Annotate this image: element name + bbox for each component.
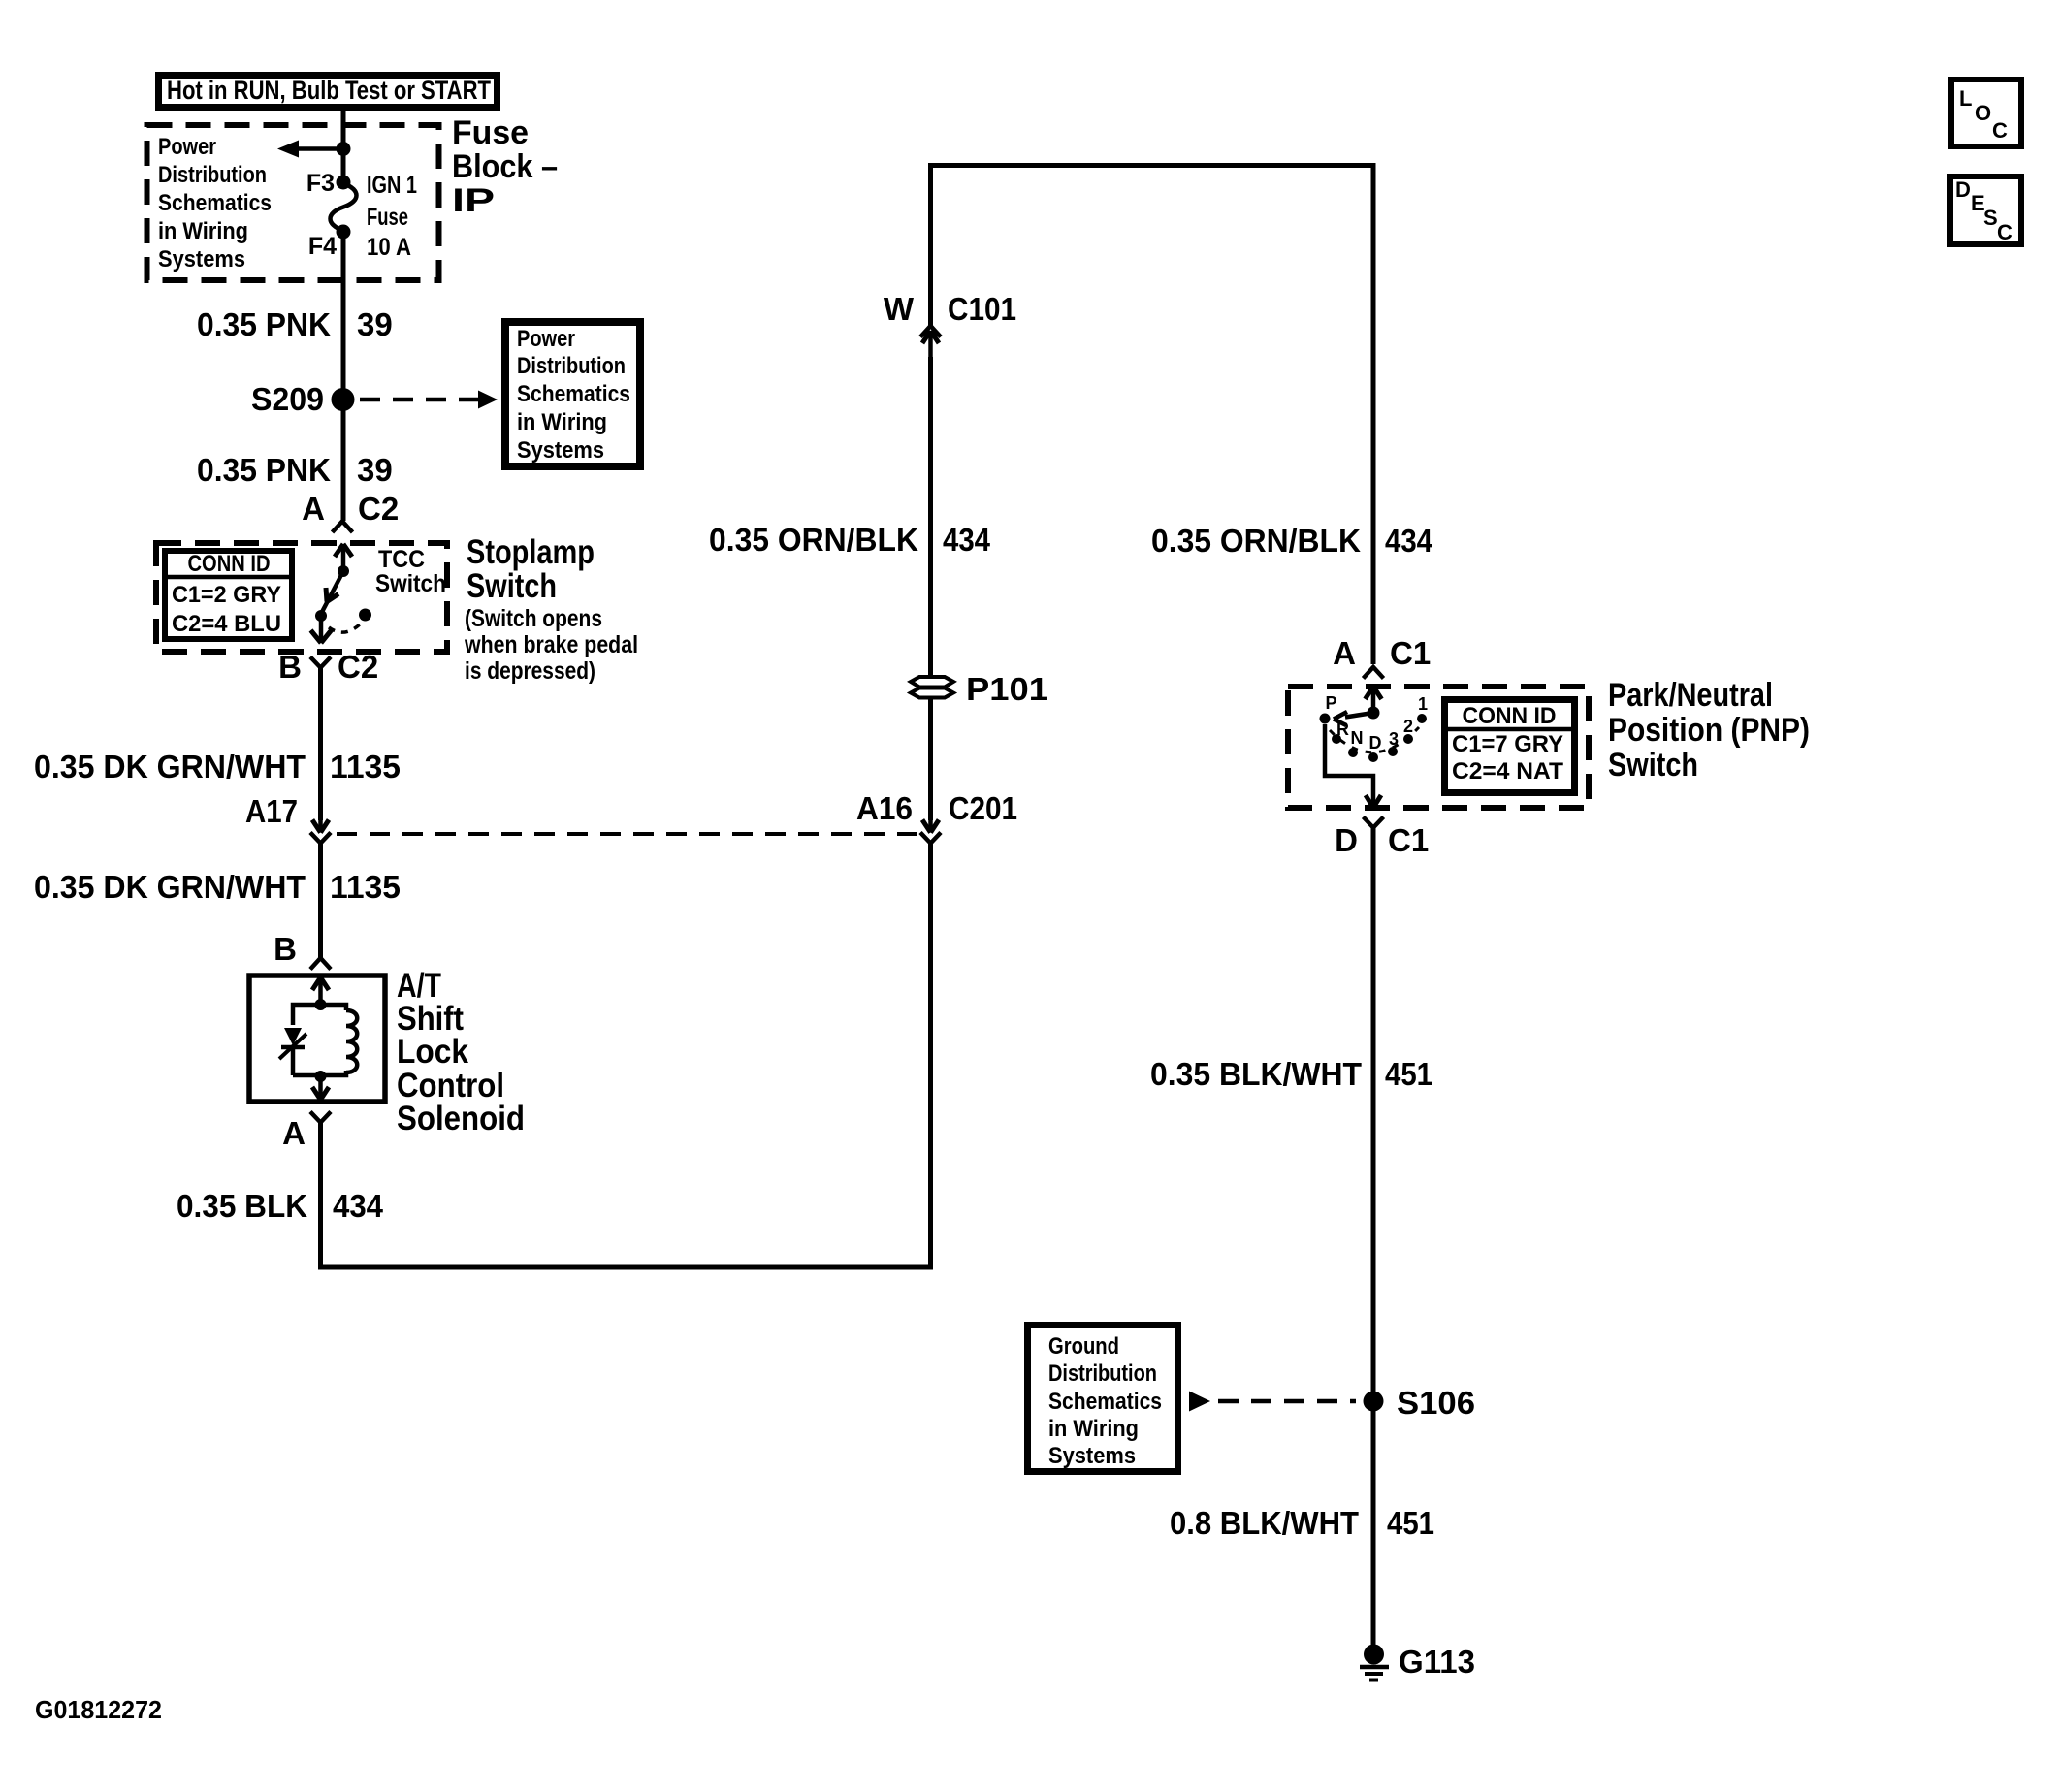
PNP contact dot N xyxy=(1348,748,1358,757)
svg-text:0.35 PNK: 0.35 PNK xyxy=(197,306,331,342)
CONN ID table (stoplamp switch) xyxy=(165,551,292,639)
CONN ID table (PNP switch) xyxy=(1444,700,1575,793)
svg-text:C2=4 NAT: C2=4 NAT xyxy=(1452,758,1563,784)
svg-text:O: O xyxy=(1975,101,1991,125)
component label: Park/Neutral Position (PNP) Switch xyxy=(1608,677,1810,784)
wire: solenoid A down, right along bottom, and up the middle column xyxy=(321,842,931,1267)
PNP switch wiper arm with arrowhead xyxy=(1334,712,1373,725)
solenoid coil winding xyxy=(346,1010,357,1072)
wire from hot box into fuse block xyxy=(341,108,346,184)
svg-text:D: D xyxy=(1955,177,1971,202)
wire label 0.35 PNK / circuit 39 (upper) xyxy=(197,306,393,342)
svg-text:Distribution: Distribution xyxy=(1048,1360,1157,1387)
wire label 0.35 ORN/BLK / 434 (middle) xyxy=(709,522,991,558)
connector C201 male arrow (middle) xyxy=(922,820,939,833)
svg-text:D: D xyxy=(1335,822,1358,858)
svg-text:Power: Power xyxy=(517,326,575,352)
connector C201 female fork (left) xyxy=(310,833,331,844)
svg-text:N: N xyxy=(1351,728,1364,748)
note text: Power Distribution Schematics in Wiring Systems (fuse block) xyxy=(158,134,272,272)
svg-text:Systems: Systems xyxy=(1048,1443,1136,1469)
PNP switch: male arrow at top xyxy=(1366,687,1382,713)
PNP switch pivot dot xyxy=(1368,707,1380,720)
splice node S106 xyxy=(1364,1392,1384,1412)
svg-text:C1: C1 xyxy=(1390,635,1431,671)
PNP contact dot 2 xyxy=(1403,734,1413,744)
svg-text:Lock: Lock xyxy=(397,1033,468,1071)
wire: P101 down to C201 xyxy=(928,698,933,820)
svg-text:S: S xyxy=(1983,206,1998,230)
svg-text:Systems: Systems xyxy=(158,246,245,272)
svg-text:P: P xyxy=(1325,693,1336,713)
label TCC Switch xyxy=(375,546,446,597)
svg-text:C101: C101 xyxy=(948,291,1016,327)
component label: Stoplamp Switch xyxy=(464,533,638,685)
PNP contact dot D xyxy=(1368,752,1378,762)
svg-text:IGN 1: IGN 1 xyxy=(367,172,417,199)
svg-text:434: 434 xyxy=(943,522,991,558)
connector female fork at solenoid B pin xyxy=(310,958,331,970)
svg-text:1135: 1135 xyxy=(330,749,401,784)
ground G113 symbol xyxy=(1360,1645,1389,1680)
svg-text:Switch: Switch xyxy=(375,570,446,597)
reference box: Ground Distribution Schematics in Wiring Systems xyxy=(1028,1326,1178,1472)
dashed reference arrow from S209 to power distribution box xyxy=(360,391,498,409)
svg-text:G01812272: G01812272 xyxy=(35,1695,162,1724)
svg-text:B: B xyxy=(274,931,297,967)
svg-text:R: R xyxy=(1336,720,1349,739)
svg-text:Ground: Ground xyxy=(1048,1333,1119,1360)
connector C101 female fork xyxy=(920,326,941,337)
svg-text:in Wiring: in Wiring xyxy=(158,218,248,244)
splice node S209 xyxy=(332,388,355,411)
svg-text:10 A: 10 A xyxy=(367,234,411,261)
svg-text:in Wiring: in Wiring xyxy=(517,409,607,435)
PNP position labels P R N D 3 2 1 xyxy=(1325,693,1428,752)
svg-text:451: 451 xyxy=(1387,1505,1434,1541)
solenoid bottom junction dot xyxy=(315,1071,327,1082)
svg-text:Hot in RUN, Bulb Test or START: Hot in RUN, Bulb Test or START xyxy=(167,76,491,105)
svg-text:39: 39 xyxy=(357,452,393,488)
connector female fork B/C2 xyxy=(310,657,331,668)
connector C201 male arrow (left) xyxy=(312,820,329,833)
svg-text:F4: F4 xyxy=(308,233,337,260)
svg-text:Switch: Switch xyxy=(467,567,557,605)
wire label 0.35 DK GRN/WHT / 1135 (upper) xyxy=(34,749,401,784)
connector female fork A/C1 xyxy=(1364,667,1384,679)
svg-text:Fuse: Fuse xyxy=(367,204,408,231)
svg-text:434: 434 xyxy=(333,1188,384,1224)
svg-text:S106: S106 xyxy=(1397,1385,1475,1421)
pin label A16 / connector C201 xyxy=(856,790,1017,826)
svg-text:C2: C2 xyxy=(358,491,399,527)
svg-text:2: 2 xyxy=(1403,717,1413,736)
wire: C101 down to P101 xyxy=(928,357,933,677)
fuse F4 terminal dot xyxy=(337,225,351,240)
PNP contact dot 1 xyxy=(1417,714,1427,723)
reference box: Power Distribution Schematics in Wiring Systems xyxy=(505,322,640,466)
wire label 0.35 BLK/WHT / 451 xyxy=(1150,1056,1432,1092)
svg-text:IP: IP xyxy=(452,182,495,219)
svg-text:0.35 DK GRN/WHT: 0.35 DK GRN/WHT xyxy=(34,749,306,784)
fuse F3 terminal dot xyxy=(337,176,351,190)
svg-text:Distribution: Distribution xyxy=(158,162,267,188)
top tie wire between middle and right columns xyxy=(931,166,1374,665)
svg-text:Stoplamp: Stoplamp xyxy=(467,533,595,571)
svg-text:Schematics: Schematics xyxy=(158,190,272,216)
svg-text:3: 3 xyxy=(1389,729,1399,749)
svg-text:C1: C1 xyxy=(1388,822,1429,858)
wire: fuse output down to stoplamp switch connector xyxy=(341,230,346,521)
svg-text:0.35 PNK: 0.35 PNK xyxy=(197,452,331,488)
solenoid internal wiring bottom xyxy=(293,1071,346,1075)
TCC switch: male arrow at bottom xyxy=(311,616,332,643)
svg-text:C: C xyxy=(1992,118,2008,143)
connector female fork A/C2 xyxy=(333,522,353,533)
svg-text:C2: C2 xyxy=(338,649,378,685)
stoplamp switch dashed box xyxy=(156,543,447,652)
svg-text:CONN ID: CONN ID xyxy=(1463,703,1557,729)
svg-text:1135: 1135 xyxy=(330,869,401,905)
svg-text:451: 451 xyxy=(1385,1056,1432,1092)
TCC switch pivot dot xyxy=(338,565,349,577)
svg-text:0.35 BLK/WHT: 0.35 BLK/WHT xyxy=(1150,1056,1362,1092)
svg-text:Switch: Switch xyxy=(1608,747,1698,784)
fuse IGN 1 10 A element (S-curve) xyxy=(331,183,357,231)
svg-text:is depressed): is depressed) xyxy=(465,657,595,685)
TCC switch: male arrow at top xyxy=(335,544,352,569)
svg-text:434: 434 xyxy=(1385,523,1433,559)
svg-text:Distribution: Distribution xyxy=(517,353,626,379)
svg-text:F3: F3 xyxy=(306,170,335,197)
svg-text:S209: S209 xyxy=(251,381,324,417)
PNP park contact output wiring xyxy=(1325,724,1373,806)
svg-text:P101: P101 xyxy=(966,671,1048,707)
wire label 0.35 BLK / 434 xyxy=(177,1188,384,1224)
TCC switch swing arm with arrowhead xyxy=(321,571,343,614)
component label: A/T Shift Lock Control Solenoid xyxy=(397,967,525,1137)
wire label 0.35 ORN/BLK / 434 (right) xyxy=(1151,523,1433,559)
connector female fork at solenoid A pin xyxy=(310,1112,331,1137)
svg-text:TCC: TCC xyxy=(378,546,425,573)
pin label B / connector C2 (stoplamp output) xyxy=(278,649,378,685)
pin label W / connector C101 xyxy=(884,291,1016,327)
A/T shift lock control solenoid box xyxy=(249,976,385,1102)
connector C101 male arrow xyxy=(922,331,939,359)
clamping diode (arrow, bar and slash) xyxy=(279,1028,306,1075)
svg-text:B: B xyxy=(278,649,302,685)
TCC switch dashed travel arc xyxy=(329,624,361,632)
svg-text:0.35 ORN/BLK: 0.35 ORN/BLK xyxy=(1151,523,1361,559)
node: junction dot feeding power distribution arrow xyxy=(337,142,351,156)
wire: C201 down to A/T shift lock solenoid xyxy=(318,842,323,958)
svg-text:A16: A16 xyxy=(856,790,913,826)
svg-text:Park/Neutral: Park/Neutral xyxy=(1608,677,1773,714)
wire label 0.35 PNK / circuit 39 (lower) xyxy=(197,452,393,488)
grommet P101 xyxy=(911,677,953,698)
svg-text:L: L xyxy=(1959,86,1972,111)
dashed connector line C201 xyxy=(337,832,917,836)
svg-text:C2=4 BLU: C2=4 BLU xyxy=(172,611,281,637)
TCC switch left contact dot xyxy=(315,610,327,622)
svg-text:0.35 DK GRN/WHT: 0.35 DK GRN/WHT xyxy=(34,869,306,905)
component label: Fuse Block - IP xyxy=(452,114,558,219)
svg-text:C1=7 GRY: C1=7 GRY xyxy=(1452,731,1563,757)
fuse block dashed box (Fuse Block - IP) xyxy=(147,125,439,280)
svg-text:Power: Power xyxy=(158,134,216,160)
PNP contact dot R xyxy=(1332,734,1341,744)
PNP dashed travel arc xyxy=(1330,727,1419,752)
wire: stoplamp switch B down to connector C201 xyxy=(318,666,323,820)
svg-text:Position (PNP): Position (PNP) xyxy=(1608,712,1810,749)
svg-text:39: 39 xyxy=(357,306,393,342)
svg-text:0.35 ORN/BLK: 0.35 ORN/BLK xyxy=(709,522,918,558)
PNP switch: male arrow at bottom xyxy=(1366,795,1381,808)
power source label box "Hot in RUN, Bulb Test or START" xyxy=(159,76,498,108)
DESC reference box xyxy=(1950,176,2021,244)
svg-text:A: A xyxy=(1333,635,1356,671)
svg-text:Block –: Block – xyxy=(452,148,558,185)
svg-text:C: C xyxy=(1997,220,2012,244)
solenoid: male arrow at bottom xyxy=(312,1076,329,1100)
pin label D / connector C1 (PNP output) xyxy=(1335,822,1429,858)
TCC switch right contact dot xyxy=(359,609,371,622)
svg-text:C201: C201 xyxy=(949,790,1017,826)
PNP contact dot P xyxy=(1320,714,1331,724)
branch arrow to power distribution schematics xyxy=(277,141,343,158)
pin label A / connector C1 (PNP switch input) xyxy=(1333,635,1431,671)
svg-text:when brake pedal: when brake pedal xyxy=(464,631,638,658)
LOC reference box xyxy=(1951,80,2021,146)
svg-text:CONN ID: CONN ID xyxy=(188,551,271,577)
solenoid top junction dot xyxy=(315,999,327,1010)
svg-text:(Switch opens: (Switch opens xyxy=(465,605,602,632)
svg-text:in Wiring: in Wiring xyxy=(1048,1416,1139,1442)
svg-text:Schematics: Schematics xyxy=(1048,1389,1162,1415)
svg-text:0.35 BLK: 0.35 BLK xyxy=(177,1188,307,1224)
svg-text:0.8 BLK/WHT: 0.8 BLK/WHT xyxy=(1170,1505,1359,1541)
park/neutral position switch dashed box xyxy=(1288,687,1589,808)
svg-text:Fuse: Fuse xyxy=(452,114,529,151)
svg-text:C1=2 GRY: C1=2 GRY xyxy=(172,582,281,608)
wire: PNP D output down to ground G113 xyxy=(1371,840,1376,1648)
svg-text:D: D xyxy=(1369,733,1382,752)
svg-text:G113: G113 xyxy=(1399,1644,1475,1680)
wire label 0.35 DK GRN/WHT / 1135 (lower) xyxy=(34,869,401,905)
pin label A / connector C2 (stoplamp switch input) xyxy=(302,491,399,527)
connector female fork D/C1 xyxy=(1364,817,1384,843)
svg-text:A: A xyxy=(282,1115,306,1151)
svg-text:Systems: Systems xyxy=(517,437,604,464)
connector C201 female fork (middle) xyxy=(920,833,941,844)
svg-text:W: W xyxy=(884,291,915,327)
dashed reference arrow from ground box to S106 xyxy=(1189,1392,1356,1412)
solenoid internal wiring top xyxy=(293,1005,346,1025)
svg-text:A: A xyxy=(302,491,325,527)
svg-text:A17: A17 xyxy=(245,793,298,829)
svg-text:Schematics: Schematics xyxy=(517,381,630,407)
svg-text:1: 1 xyxy=(1418,694,1428,714)
solenoid: male arrow at top xyxy=(312,977,329,1005)
fuse value label IGN 1 Fuse 10 A xyxy=(367,172,417,261)
PNP contact dot 3 xyxy=(1388,747,1398,756)
svg-text:Solenoid: Solenoid xyxy=(397,1100,525,1137)
wire label 0.8 BLK/WHT / 451 xyxy=(1170,1505,1434,1541)
